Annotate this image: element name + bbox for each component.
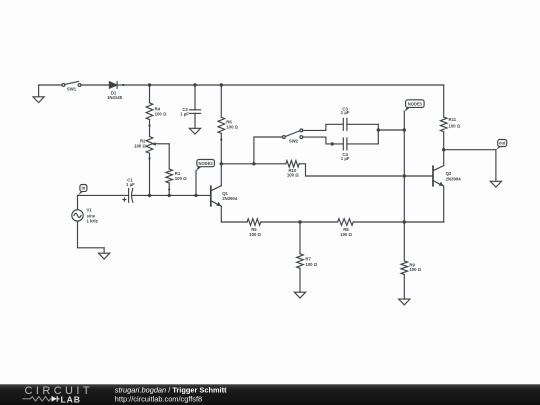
wire (emitter rail) xyxy=(221,221,247,223)
svg-text:100 Ω: 100 Ω xyxy=(449,123,461,128)
svg-text:100 Ω: 100 Ω xyxy=(226,125,238,130)
ground (R9) xyxy=(399,299,410,305)
node xyxy=(194,194,197,197)
CircuitLab logo xyxy=(22,385,91,404)
net flag NODE2 xyxy=(196,160,214,196)
diode D1 xyxy=(109,82,124,89)
capacitor C3 xyxy=(343,118,378,130)
svg-text:Q1: Q1 xyxy=(222,191,228,196)
node (R4 top junction) xyxy=(148,83,151,86)
polarity mark (C1 +) xyxy=(123,198,126,201)
wire xyxy=(353,221,443,223)
ground (C2) xyxy=(189,128,200,134)
svg-text:100 Ω: 100 Ω xyxy=(155,111,167,116)
node (R7 junction) xyxy=(298,220,301,223)
node xyxy=(331,142,334,145)
wire xyxy=(261,221,338,223)
svg-text:100 Ω: 100 Ω xyxy=(175,176,187,181)
capacitor C2 xyxy=(190,85,201,128)
node (C2 top junction) xyxy=(193,83,196,86)
svg-text:SW1: SW1 xyxy=(67,87,77,92)
wire top rail xyxy=(123,84,444,86)
wire xyxy=(39,84,62,86)
node xyxy=(403,220,406,223)
resistor R7 xyxy=(297,222,304,292)
node xyxy=(148,194,151,197)
svg-text:2N3904: 2N3904 xyxy=(446,176,462,181)
transistor Q1 xyxy=(211,164,222,222)
resistor R5 xyxy=(247,219,261,226)
svg-text:NODE2: NODE2 xyxy=(199,161,214,166)
svg-text:100 Ω: 100 Ω xyxy=(287,172,299,177)
wire (out) xyxy=(444,149,496,151)
wire xyxy=(149,126,151,137)
switch SW1 xyxy=(62,81,81,86)
resistor R11 xyxy=(440,85,447,150)
resistor R1 xyxy=(166,169,173,191)
svg-text:100 Ω: 100 Ω xyxy=(340,232,352,237)
svg-text:V1: V1 xyxy=(87,208,93,213)
svg-text:2N3904: 2N3904 xyxy=(222,196,238,201)
resistor R9 xyxy=(401,222,408,299)
resistor R10 xyxy=(286,161,433,177)
ground (SW1) xyxy=(38,85,40,97)
svg-text:1 kHz: 1 kHz xyxy=(87,219,98,224)
capacitor C4 xyxy=(343,138,378,150)
wire xyxy=(81,84,110,86)
ground (R7) xyxy=(294,292,305,298)
wire xyxy=(168,190,170,196)
resistor R8 xyxy=(338,219,354,226)
wire (V1 bottom) xyxy=(78,221,105,248)
ground (V1) xyxy=(103,248,105,253)
switch SW2 xyxy=(283,129,303,139)
ground (out) xyxy=(495,150,497,182)
node (R6 top junction) xyxy=(220,83,223,86)
svg-text:100 Ω: 100 Ω xyxy=(409,267,421,272)
svg-text:out: out xyxy=(499,141,506,146)
svg-text:http://circuitlab.com/cgffsf8: http://circuitlab.com/cgffsf8 xyxy=(115,395,202,404)
svg-text:100 Ω: 100 Ω xyxy=(249,232,261,237)
wire xyxy=(378,129,404,131)
wire (R2 bottom to input net) xyxy=(149,159,151,196)
net flag NODE3 xyxy=(404,100,424,222)
svg-text:100 Ω: 100 Ω xyxy=(305,262,317,267)
wire (V1 top) xyxy=(77,195,79,209)
svg-text:SW2: SW2 xyxy=(289,139,299,144)
wire (SW2 lower throw to C4) xyxy=(303,137,343,144)
wire xyxy=(149,85,151,103)
wire (SW2 upper throw to C3) xyxy=(303,124,343,130)
voltage source V1 xyxy=(72,210,83,221)
potentiometer R2 xyxy=(146,137,169,160)
wire (caps right side) xyxy=(377,124,379,144)
svg-text:1 µF: 1 µF xyxy=(341,156,350,161)
svg-text:NODE3: NODE3 xyxy=(408,101,423,106)
node xyxy=(252,162,255,165)
resistor R6 xyxy=(218,85,225,164)
svg-text:1 µF: 1 µF xyxy=(180,112,189,117)
svg-text:R11: R11 xyxy=(449,117,457,122)
node xyxy=(403,174,406,177)
node xyxy=(403,128,406,131)
node xyxy=(377,128,380,131)
capacitor C1 xyxy=(129,189,211,203)
transistor Q2 xyxy=(433,150,444,222)
net flag in xyxy=(78,185,87,196)
svg-text:R7: R7 xyxy=(305,256,311,261)
svg-text:1 µF: 1 µF xyxy=(126,182,135,187)
svg-text:1N4148: 1N4148 xyxy=(107,95,123,100)
node (out junction) xyxy=(442,148,445,151)
svg-text:strugari.bogdan / Trigger Schm: strugari.bogdan / Trigger Schmitt xyxy=(115,386,227,395)
wire (up to SW2) xyxy=(254,137,283,164)
svg-text:100 Ω: 100 Ω xyxy=(134,143,146,148)
resistor R4 xyxy=(146,103,153,127)
wire xyxy=(221,163,285,165)
wire (wiper to R1) xyxy=(168,144,170,169)
svg-text:LAB: LAB xyxy=(61,394,81,404)
wire xyxy=(78,194,129,196)
net flag out xyxy=(496,140,507,150)
svg-text:in: in xyxy=(82,186,86,191)
svg-text:1 µF: 1 µF xyxy=(341,110,350,115)
node xyxy=(168,194,171,197)
node (Q1 collector) xyxy=(220,162,223,165)
